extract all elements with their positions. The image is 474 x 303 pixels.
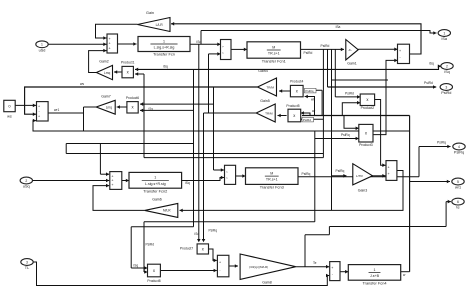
svg-text:+: +: [219, 261, 221, 265]
svg-text:iSa: iSa: [336, 25, 341, 29]
svg-text:Product8: Product8: [147, 279, 160, 283]
svg-text:uSq: uSq: [23, 185, 30, 189]
svg-text:>: >: [222, 44, 224, 48]
svg-text:iSd: iSd: [197, 40, 202, 44]
svg-text:Gain2: Gain2: [99, 60, 109, 64]
svg-text:Transfer Fcn2: Transfer Fcn2: [143, 188, 167, 193]
svg-text:1: 1: [41, 43, 43, 47]
svg-text:+: +: [109, 42, 111, 46]
svg-text:Gain6: Gain6: [152, 198, 162, 202]
svg-text:L.sig.s+R.sig: L.sig.s+R.sig: [154, 46, 175, 50]
svg-text:PsiRq: PsiRq: [437, 141, 446, 145]
svg-text:PsiRq: PsiRq: [454, 151, 464, 155]
svg-text:iSq: iSq: [429, 62, 434, 66]
svg-text:ws: ws: [7, 115, 12, 119]
svg-text:TR/M: TR/M: [265, 111, 273, 115]
svg-text:iSq: iSq: [444, 70, 450, 74]
svg-text:M: M: [272, 45, 275, 49]
svg-text:>: >: [222, 51, 224, 55]
svg-text:Gain: Gain: [146, 11, 154, 15]
svg-text:Product3: Product3: [359, 143, 373, 147]
svg-text:+: +: [38, 105, 40, 109]
svg-text:2: 2: [446, 64, 448, 68]
svg-text:Lmq: Lmq: [104, 71, 110, 75]
svg-text:PsiRd: PsiRd: [424, 81, 433, 85]
svg-text:PsiRd: PsiRd: [303, 118, 311, 122]
svg-text:+: +: [38, 114, 40, 118]
svg-text:Gain3: Gain3: [358, 189, 368, 193]
svg-text:M: M: [270, 172, 273, 176]
svg-text:J.s+B: J.s+B: [370, 274, 380, 278]
svg-text:Product5: Product5: [286, 104, 299, 108]
svg-text:M/LR: M/LR: [163, 209, 171, 213]
svg-text:wr1: wr1: [54, 108, 59, 112]
svg-text:TL: TL: [25, 266, 29, 270]
svg-text:Transfer Fcn: Transfer Fcn: [153, 52, 175, 57]
svg-text:L/LR: L/LR: [156, 23, 164, 27]
svg-text:+: +: [111, 179, 113, 183]
svg-text:TR.s+1: TR.s+1: [266, 178, 278, 182]
svg-text:Product1: Product1: [121, 61, 135, 65]
svg-text:wr1: wr1: [455, 186, 461, 190]
svg-text:Product6: Product6: [126, 96, 139, 100]
svg-text:+: +: [109, 37, 111, 41]
svg-text:L.sig.s+R.sig: L.sig.s+R.sig: [145, 182, 166, 186]
svg-text:Gain5: Gain5: [260, 99, 270, 103]
svg-text:1: 1: [154, 176, 156, 180]
svg-text:Te: Te: [313, 261, 317, 265]
svg-text:TR/M: TR/M: [266, 85, 274, 89]
svg-text:ws: ws: [80, 82, 84, 86]
svg-text:Lmq: Lmq: [106, 105, 112, 109]
svg-text:iSq: iSq: [163, 64, 168, 68]
svg-text:+: +: [109, 46, 111, 50]
svg-text:PsiRq: PsiRq: [302, 172, 311, 176]
svg-text:+: +: [388, 165, 390, 169]
svg-text:Gain1: Gain1: [347, 61, 357, 65]
svg-text:Transfer Fcn3: Transfer Fcn3: [260, 185, 284, 190]
svg-text:>: >: [226, 170, 228, 174]
svg-text:6: 6: [457, 200, 459, 204]
svg-text:PsiRd: PsiRd: [146, 242, 155, 246]
svg-text:iSq: iSq: [185, 181, 190, 185]
svg-text:Transfer Fcn4: Transfer Fcn4: [362, 280, 387, 285]
svg-text:1: 1: [374, 268, 376, 272]
svg-text:+: +: [111, 183, 113, 187]
svg-text:3: 3: [445, 85, 447, 89]
svg-text:PsiRq: PsiRq: [336, 169, 345, 173]
svg-text:Gain4: Gain4: [258, 69, 268, 73]
svg-text:-K-: -K-: [348, 48, 352, 52]
svg-text:Gain8: Gain8: [262, 281, 272, 285]
svg-text:+: +: [388, 172, 390, 176]
svg-text:te: te: [456, 206, 459, 210]
svg-text:iSq: iSq: [134, 264, 139, 268]
svg-text:Product4: Product4: [290, 80, 303, 84]
svg-text:Transfer Fcn1: Transfer Fcn1: [262, 58, 286, 63]
svg-text:iSa: iSa: [442, 37, 448, 41]
svg-text:Product2: Product2: [361, 106, 375, 110]
svg-text:5: 5: [457, 180, 459, 184]
svg-text:PsiRd: PsiRd: [304, 51, 313, 55]
svg-text:uSd: uSd: [39, 48, 46, 52]
svg-text:Gain7: Gain7: [101, 94, 111, 98]
svg-text:PsiRd: PsiRd: [345, 91, 354, 95]
svg-text:PsiRd: PsiRd: [321, 44, 330, 48]
svg-text:+: +: [111, 174, 113, 178]
svg-text:+: +: [399, 49, 401, 53]
svg-text:2: 2: [25, 179, 27, 183]
svg-text:wr: wr: [312, 109, 316, 113]
svg-text:PsiRq: PsiRq: [305, 89, 313, 93]
svg-text:L/TR: L/TR: [356, 174, 363, 178]
svg-text:w: w: [403, 273, 406, 277]
svg-text:1: 1: [163, 39, 165, 43]
svg-text:1: 1: [443, 31, 445, 35]
svg-text:iSd: iSd: [195, 232, 200, 236]
svg-text:TR.s+1: TR.s+1: [268, 52, 280, 56]
svg-text:Product7: Product7: [180, 247, 193, 251]
svg-text:PsiRq: PsiRq: [341, 133, 350, 137]
svg-text:(3/2)(p)(M/LR): (3/2)(p)(M/LR): [249, 265, 268, 269]
svg-text:>: >: [226, 176, 228, 180]
svg-text:PsiRq: PsiRq: [209, 229, 218, 233]
svg-text:4: 4: [458, 145, 460, 149]
svg-text:3: 3: [26, 260, 28, 264]
svg-text:iSq: iSq: [149, 107, 154, 111]
svg-text:PsiRd: PsiRd: [441, 91, 451, 95]
svg-text:+: +: [331, 266, 333, 270]
